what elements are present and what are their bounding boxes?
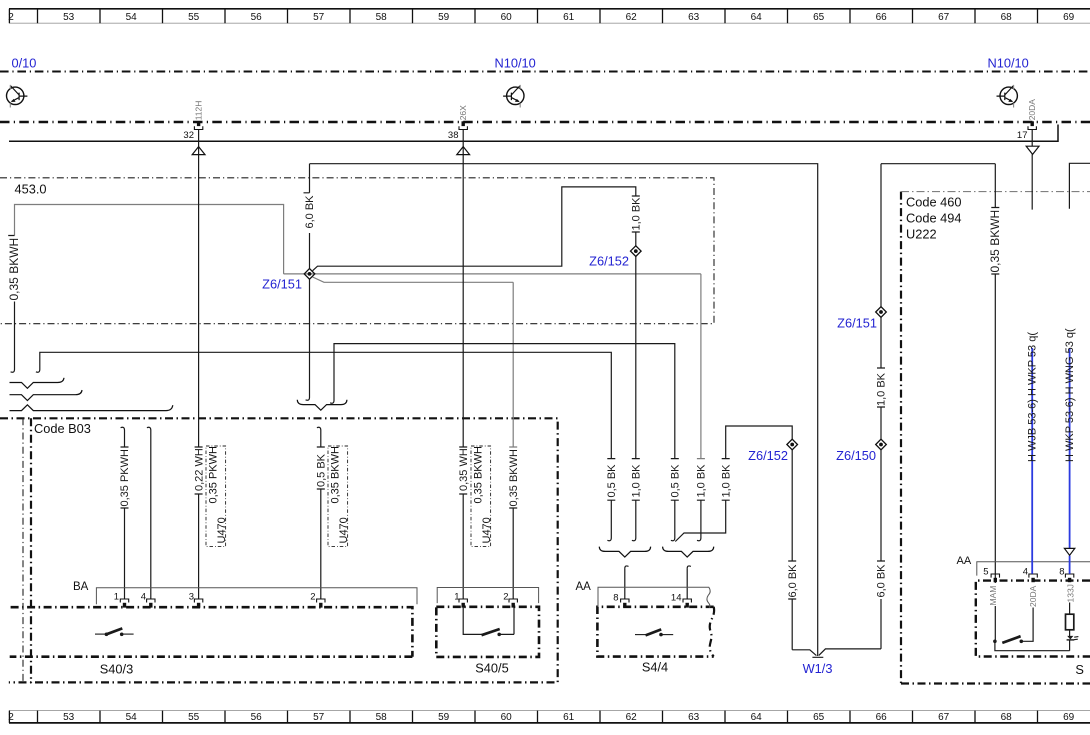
svg-text:6,0 BK: 6,0 BK <box>876 564 888 598</box>
svg-text:Z6/151: Z6/151 <box>262 277 302 292</box>
svg-text:1,0 BK: 1,0 BK <box>696 464 708 498</box>
wire terminal 17 down <box>1031 129 1033 209</box>
transfer symbol left <box>7 85 28 108</box>
svg-text:BA: BA <box>73 581 89 593</box>
pin numbers S40/5 <box>454 592 508 603</box>
Code B03 dash-dot box <box>0 418 558 682</box>
svg-text:54: 54 <box>126 712 138 723</box>
wire Z6/151 to Z6/152 link <box>313 187 640 271</box>
option triangle at pin 32 <box>192 147 205 155</box>
S4/4 pin 14 socket <box>683 599 691 608</box>
switch S4/4 contact <box>635 629 673 636</box>
svg-text:N10/10: N10/10 <box>495 56 536 71</box>
blue wire pin 8 (133J) with down triangle <box>1069 348 1071 574</box>
pin numbers S40/3 <box>114 592 316 603</box>
svg-text:17: 17 <box>1017 130 1028 141</box>
variant label U470 0,35 PKWH <box>208 446 229 544</box>
wire to S4/4 pin 8 branch (0,5 BK) with end hook <box>36 352 615 540</box>
switch S40/3 contact <box>95 628 134 636</box>
svg-text:AA: AA <box>576 581 592 593</box>
svg-text:1: 1 <box>454 592 459 603</box>
svg-text:60: 60 <box>501 712 513 723</box>
svg-text:0,35 BKWH: 0,35 BKWH <box>508 449 520 507</box>
wire to S4/4 pin 14 branch (0,5 BK) with end hook <box>330 344 679 541</box>
pin numbers S4/4 <box>613 593 681 604</box>
svg-text:32: 32 <box>183 130 194 141</box>
option triangle at pin 38 <box>457 147 470 155</box>
svg-text:2: 2 <box>8 12 14 23</box>
svg-text:U470: U470 <box>216 517 228 543</box>
connector bracket on S40/5 <box>437 588 538 604</box>
svg-text:63: 63 <box>688 712 700 723</box>
brace pair group 3 (long) <box>10 405 173 411</box>
svg-text:53: 53 <box>63 712 75 723</box>
svg-text:Code B03: Code B03 <box>34 421 91 436</box>
bottom ruler numbers <box>8 712 1074 723</box>
svg-text:N10/10: N10/10 <box>988 56 1029 71</box>
svg-text:68: 68 <box>1001 712 1013 723</box>
svg-text:0,35 BKWH: 0,35 BKWH <box>988 210 1002 273</box>
svg-text:0,35 BKWH: 0,35 BKWH <box>330 446 342 504</box>
svg-text:1,0 BK: 1,0 BK <box>631 197 643 231</box>
S40/3 pin 4 socket <box>147 599 155 608</box>
svg-text:0,35 BKWH: 0,35 BKWH <box>7 238 21 301</box>
S4/4 pin 8 socket <box>621 599 629 608</box>
option triangle on blue wire <box>1064 548 1074 555</box>
svg-text:66: 66 <box>876 712 888 723</box>
svg-text:1,0 BK: 1,0 BK <box>720 464 732 498</box>
svg-text:MAM: MAM <box>988 586 998 606</box>
LED symbol in Code 460 <box>1067 636 1079 640</box>
wire 1,0 BK below upper Z6/152 to S4/4 pin 8 branch with end hook <box>632 256 640 540</box>
wire S40/5 pin 2 lower black part <box>509 508 517 599</box>
wire N10/10 pin17 bus down through Z6/151 and Z6/150 to W1/3 <box>877 164 885 649</box>
svg-text:57: 57 <box>313 712 325 723</box>
svg-text:59: 59 <box>438 712 450 723</box>
svg-text:58: 58 <box>376 712 388 723</box>
svg-text:0/10: 0/10 <box>12 56 37 71</box>
svg-text:Code 460: Code 460 <box>906 195 962 210</box>
svg-text:4: 4 <box>141 592 146 603</box>
module label Code 460 / Code 494 / U222 <box>906 195 962 242</box>
svg-text:8: 8 <box>613 593 618 604</box>
svg-text:U222: U222 <box>906 227 937 242</box>
svg-text:56: 56 <box>251 12 263 23</box>
svg-text:Z6/150: Z6/150 <box>836 448 876 463</box>
top ruler numbers <box>8 12 1074 23</box>
svg-text:8: 8 <box>1059 567 1064 578</box>
Code 460 pin 8 socket <box>1065 574 1073 582</box>
brace above S4/4 pin 14 <box>663 547 714 557</box>
svg-text:6,0 BK: 6,0 BK <box>304 195 316 229</box>
wire S40/3 pin 2 (0,5 BK) with top hook <box>317 427 325 598</box>
S40/5 pin 1 socket <box>459 599 467 608</box>
svg-text:S4/4: S4/4 <box>642 660 668 675</box>
variant label U470 0,35 BKWH at S40/5 <box>473 446 494 544</box>
wire terminal 32 to S40/3 pin 3 (0,22 WH) <box>195 129 203 598</box>
svg-text:61: 61 <box>563 712 575 723</box>
svg-text:59: 59 <box>438 12 450 23</box>
svg-text:0,5 BK: 0,5 BK <box>316 453 328 487</box>
svg-text:62: 62 <box>626 12 638 23</box>
resistor element in Code 460 <box>1066 603 1074 651</box>
svg-text:133J: 133J <box>1065 584 1075 602</box>
brace above S40/3 pin 2 <box>297 400 347 410</box>
brace above S4/4 pin 8 <box>599 547 650 557</box>
svg-text:112H: 112H <box>194 101 204 121</box>
blue wire pin 4 (20DA) <box>1031 348 1033 574</box>
inner boundary thin dash-dot <box>22 418 24 683</box>
harness 453.0 dash-dot box <box>0 178 714 324</box>
variant label U470 0,35 BKWH at pin2 <box>330 446 351 544</box>
svg-text:H WKP 53-6) H WNG 53 q(: H WKP 53-6) H WNG 53 q( <box>1064 328 1076 462</box>
wire Z6/151 to S40/5 pin 2 (upper grey part) <box>313 277 518 447</box>
top ruler band <box>9 9 1090 23</box>
wire 0,35 BKWH into Code 460 pin 5 <box>881 164 999 642</box>
transfer symbol right <box>997 85 1018 108</box>
switch unit dash-dot box in Code 460 <box>976 581 1090 657</box>
wire 6,0 BK from lower Z6/152 to ground W1/3 <box>788 450 796 650</box>
svg-text:67: 67 <box>938 712 950 723</box>
svg-text:64: 64 <box>751 712 763 723</box>
svg-text:53: 53 <box>63 12 75 23</box>
switch S40/5 contact and wiring <box>463 607 514 636</box>
S40/5 pin 2 socket <box>509 599 517 608</box>
svg-text:S40/3: S40/3 <box>100 662 133 677</box>
connector bracket AA on S4/4 with torn end <box>598 587 710 608</box>
svg-text:65: 65 <box>813 712 825 723</box>
switch unit S40/3 dash-dot box <box>10 607 413 657</box>
wire Z6/151 to S4/4 pin 14 (upper grey part) <box>697 274 705 459</box>
svg-text:0,5 BK: 0,5 BK <box>606 464 618 498</box>
S40/3 pin 3 socket <box>194 599 202 608</box>
svg-text:2: 2 <box>503 592 508 603</box>
wire splice bus Z6/151 horizontal <box>284 273 701 275</box>
svg-text:65: 65 <box>813 12 825 23</box>
wire S40/3 pin 1 (0,35 PKWH) with top hook <box>121 427 129 598</box>
splice Z6/152 upper <box>631 246 642 257</box>
svg-text:61: 61 <box>563 12 575 23</box>
control module box Code 460 (N10/10) <box>901 192 1090 684</box>
svg-text:56: 56 <box>251 712 263 723</box>
svg-text:1,0 BK: 1,0 BK <box>631 464 643 498</box>
svg-text:1,0 BK: 1,0 BK <box>876 372 888 406</box>
svg-text:3: 3 <box>189 592 194 603</box>
connector bracket BA on S40/3 <box>96 588 417 605</box>
option triangle at pin 17 (down) <box>1026 146 1039 154</box>
svg-text:Z6/152: Z6/152 <box>589 254 629 269</box>
svg-text:54: 54 <box>126 12 138 23</box>
wire switch to bottom bus in Code 460 <box>995 641 1070 650</box>
svg-text:58: 58 <box>376 12 388 23</box>
svg-text:66: 66 <box>876 12 888 23</box>
variant box U470 at S40/3 pin 3 <box>206 446 226 547</box>
pin numbers Code 460 <box>983 567 1064 578</box>
svg-text:0,35 PKWH: 0,35 PKWH <box>119 449 131 507</box>
wire pin4 to switch in Code 460 <box>1021 608 1033 642</box>
switch unit S40/5 dash-dot box <box>436 607 539 657</box>
svg-text:S40/5: S40/5 <box>475 661 508 676</box>
splice Z6/151 left <box>304 269 315 280</box>
svg-text:Code 494: Code 494 <box>906 211 962 226</box>
svg-text:60: 60 <box>501 12 513 23</box>
switch unit S4/4 dash-dot box <box>597 607 714 657</box>
inner boundary bold dash-dot <box>30 418 32 683</box>
svg-text:2: 2 <box>8 712 14 723</box>
variant box U470 at S40/5 pin 1 <box>471 446 491 547</box>
wire S40/3 pin 4 with top hook <box>147 427 151 598</box>
main rail line N10/10 <box>9 125 1058 142</box>
svg-text:0,35 PKWH: 0,35 PKWH <box>208 446 220 504</box>
pin 38 socket (26X) <box>459 121 467 129</box>
wire rail branch to ground W1/3 (centre) <box>310 164 818 656</box>
svg-text:0,35 BKWH: 0,35 BKWH <box>473 446 485 504</box>
Code 460 pin 4 socket <box>1029 574 1037 582</box>
brace pair group 2 <box>10 390 83 401</box>
variant box U470 at S40/3 pin 2 <box>328 446 348 547</box>
wire pins 8/14 below braces into S4/4 <box>625 566 691 599</box>
svg-text:H WJB 53-6) H WKP 53 q(: H WJB 53-6) H WKP 53 q( <box>1027 332 1039 462</box>
svg-text:62: 62 <box>626 712 638 723</box>
connector bracket AA in Code 460 <box>977 562 1090 576</box>
switch contact in Code 460 box <box>993 636 1023 643</box>
svg-text:64: 64 <box>751 12 763 23</box>
splice Z6/150 <box>876 439 887 450</box>
ground symbol W1/3 <box>792 649 881 657</box>
svg-text:20DA: 20DA <box>1027 99 1037 121</box>
pin 32 socket (112H) <box>194 121 202 129</box>
svg-text:68: 68 <box>1001 12 1013 23</box>
svg-text:Z6/152: Z6/152 <box>748 448 788 463</box>
wire 1,0 BK to lower Z6/152 splice <box>675 426 792 542</box>
svg-text:67: 67 <box>938 12 950 23</box>
wire stub top right into Code 460 <box>1069 163 1090 209</box>
wire 6,0 BK from rail to splice Z6/151 and down-hook below <box>304 164 310 401</box>
svg-text:26X: 26X <box>458 105 468 120</box>
splice Z6/152 lower <box>787 439 798 450</box>
svg-text:2: 2 <box>310 592 315 603</box>
svg-text:55: 55 <box>188 712 200 723</box>
svg-text:0,22 WH: 0,22 WH <box>193 448 205 491</box>
svg-text:69: 69 <box>1063 712 1075 723</box>
svg-text:1: 1 <box>114 592 119 603</box>
svg-text:U470: U470 <box>338 517 350 543</box>
wire 0,35 BKWH grey feed from 453.0 harness <box>15 205 284 274</box>
S40/3 pin 2 socket <box>317 599 325 608</box>
wire S4/4 pin 14 branch lower part with end hook <box>697 500 705 541</box>
svg-text:S: S <box>1075 662 1084 677</box>
svg-text:Z6/151: Z6/151 <box>837 316 877 331</box>
wire 0,35 BKWH lower part with end hook <box>8 236 14 373</box>
svg-text:453.0: 453.0 <box>15 182 47 197</box>
svg-text:AA: AA <box>957 555 972 567</box>
svg-text:0,5 BK: 0,5 BK <box>670 464 682 498</box>
svg-text:0,35 WH: 0,35 WH <box>458 448 470 491</box>
svg-text:5: 5 <box>983 567 988 578</box>
svg-text:14: 14 <box>671 593 682 604</box>
bottom ruler band <box>9 711 1090 723</box>
node N10/10 upper boundary dash-dot line <box>0 71 1090 73</box>
svg-text:W1/3: W1/3 <box>803 661 833 676</box>
Code 460 pin 5 socket <box>991 574 999 582</box>
connector boundary bold dash-dot line <box>0 121 1090 123</box>
svg-text:6,0 BK: 6,0 BK <box>787 564 799 598</box>
splice Z6/151 right <box>876 307 887 318</box>
wire terminal 38 to S40/5 pin 1 (0,35 WH) <box>459 129 467 598</box>
brace pair group 1 <box>10 378 65 389</box>
svg-text:69: 69 <box>1063 12 1075 23</box>
svg-text:55: 55 <box>188 12 200 23</box>
svg-text:U470: U470 <box>481 517 493 543</box>
svg-text:20DA: 20DA <box>1028 585 1038 607</box>
svg-text:57: 57 <box>313 12 325 23</box>
transfer symbol centre <box>503 85 524 108</box>
S40/3 pin 1 socket <box>120 599 128 608</box>
svg-text:4: 4 <box>1023 567 1028 578</box>
svg-text:38: 38 <box>448 130 459 141</box>
pin 17 socket (20DA) <box>1028 121 1036 129</box>
svg-text:63: 63 <box>688 12 700 23</box>
